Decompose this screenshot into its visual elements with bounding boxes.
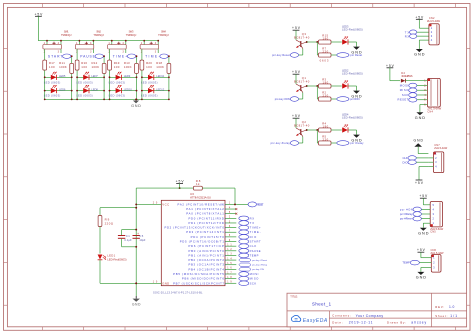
svg-text:SW3: SW3 [129,29,134,33]
node TIME+ (net label) [113,54,138,58]
ground (switch bank) [131,98,141,108]
svg-text:RX: RX [405,34,410,38]
svg-text:prc-key #relay: prc-key #relay [271,141,291,145]
resistor R11 100K [59,61,74,73]
wire [331,41,342,43]
svg-text:+5V: +5V [34,12,43,16]
svg-text:0.1µF: 0.1µF [124,238,132,242]
svg-text:GND: GND [414,139,424,143]
svg-text:Date:: Date: [332,320,343,324]
node pcr #ON (net label) [337,97,360,102]
svg-text:0603: 0603 [320,58,329,62]
svg-text:LED9: LED9 [124,74,131,78]
svg-text:10µF: 10µF [139,238,145,242]
ground (CN5) [418,228,429,236]
resistor R13 100K [124,61,139,73]
svg-text:GND: GND [162,281,169,285]
svg-text:GND: GND [418,231,429,235]
resistor R5 220 [319,134,332,145]
LED LED11 LED-0603 [141,72,170,85]
svg-text:100: 100 [49,65,55,69]
title date / drawn by [332,320,426,324]
svg-text:+5V: +5V [292,26,301,30]
svg-text:TIME-: TIME- [250,230,261,234]
svg-text:PA1 (PCINT9/XTAL2): PA1 (PCINT9/XTAL2) [186,207,225,211]
ground (CN6) [416,272,427,280]
node PAUSE (net label) [239,249,261,254]
U6 pin 15 PB3 [188,263,236,267]
svg-text:BC817-40: BC817-40 [294,35,310,39]
node TEMP (net label) [239,253,259,258]
svg-text:2019-12-11: 2019-12-11 [349,321,373,325]
wire [306,129,319,131]
node RX (net label) [405,34,424,38]
svg-text:PA2 (PCINT10/RESET/dW): PA2 (PCINT10/RESET/dW) [178,202,226,206]
svg-text:14: 14 [227,258,232,260]
U6 pin 6 PD2 [164,226,236,230]
svg-text:220: 220 [323,138,329,142]
switch SW4 [140,29,169,53]
svg-text:TX: TX [250,221,255,225]
U6 pin 3 PD1 [188,221,236,225]
U6 pin 2 PD0 [188,216,236,220]
U6 pin 7 PD3 [186,230,236,234]
node DIO (net label) [403,160,429,164]
LED LED9 LED-0603 [109,72,138,85]
svg-text:prc-key #Relay: prc-key #Relay [252,265,267,267]
node prc-key #Reset (net port) [239,258,268,262]
wire [406,80,428,82]
svg-text:PD6 (PCINT17/ICP): PD6 (PCINT17/ICP) [188,244,225,248]
wire [331,98,337,100]
connector CN7 ZH1.5-4AW [428,143,447,172]
svg-text:TEMP: TEMP [402,261,410,265]
U6 pin 16 PB4 [188,267,236,271]
svg-text:SCK: SCK [250,281,257,285]
wire [99,227,101,254]
ground (CN2) [414,49,425,57]
svg-text:CN4: CN4 [427,109,433,113]
svg-text:TIME+: TIME+ [250,226,261,230]
connector CN5 ZH1.5-5AW [421,202,443,234]
title Sheet_1 [312,302,332,307]
svg-text:Sheet_1: Sheet_1 [312,302,332,307]
svg-text:1k: 1k [196,182,200,186]
no-connect [235,208,237,210]
svg-text:Company:: Company: [332,314,351,318]
svg-text:20: 20 [153,202,158,205]
resistor R9 220ohm [98,208,114,227]
node RESET (net label) [398,97,422,102]
svg-text:LED-Red(0805): LED-Red(0805) [342,71,363,75]
U6 pin 19 PB7 [173,281,236,285]
wire (bottom GND bus) [45,98,169,100]
svg-text:SOIC-20_L13.0-W7.6-P1.27-LS10.: SOIC-20_L13.0-W7.6-P1.27-LS10.6-BL [153,290,203,294]
svg-text:Drawn By:: Drawn By: [387,320,406,324]
LED LED2 LED-Red(0805) [342,68,363,88]
power flag +5V (Q1 driver) [292,70,301,84]
wire [420,105,422,113]
switch SW1 [43,29,72,53]
U6 pin 20 VCC [135,202,169,207]
svg-text:PD1 (PCINT12/TXD): PD1 (PCINT12/TXD) [188,221,225,225]
svg-text:SW2: SW2 [96,29,101,33]
svg-text:100: 100 [81,65,87,69]
svg-text:LED-Red(0805): LED-Red(0805) [342,115,363,119]
capacitor C5 10uF (electrolytic) [133,232,146,242]
svg-text:LED (0603): LED (0603) [141,80,158,84]
svg-text:TX: TX [405,30,410,34]
node prc-key #Relay (net port) [239,263,267,267]
svg-text:LED (0603): LED (0603) [141,94,158,98]
svg-text:+5V: +5V [176,180,185,184]
svg-text:LED-Red(0603): LED-Red(0603) [107,258,126,262]
svg-text:PAUSE: PAUSE [80,54,95,58]
svg-text:BC817-40: BC817-40 [294,79,310,83]
svg-text:18: 18 [227,277,232,279]
resistor R19 100 [108,60,120,70]
node MOSI (net label) [239,272,259,277]
power flag +5V (CN4) [386,64,400,81]
svg-text:RESET: RESET [257,203,264,207]
switch SW2 [75,29,104,53]
LED LED1 LED-Red(0603) [98,254,127,262]
power flag +5V (CN5) [419,194,430,205]
wire (top +5V bus) [38,40,158,42]
svg-text:RX: RX [250,216,255,220]
svg-text:220: 220 [323,50,329,54]
svg-text:LED (0603): LED (0603) [109,94,126,98]
LED LED5 LED-0603 [44,72,73,85]
wire [141,49,143,100]
svg-text:PB5 (MOSI/DI/SDA/PCINT5): PB5 (MOSI/DI/SDA/PCINT5) [173,272,225,276]
svg-text:PD3 (PCINT14/INT1): PD3 (PCINT14/INT1) [186,230,225,234]
title REV [435,305,454,309]
title block [287,293,467,327]
transistor Q1 BC817-40 [294,76,310,93]
svg-text:TITLE:: TITLE: [290,295,298,299]
svg-text:Sheet:: Sheet: [435,314,447,318]
svg-text:15: 15 [227,263,232,265]
node pcr #Reset (net label) [400,216,422,221]
svg-text:100K: 100K [92,65,100,69]
svg-text:BC817-40: BC817-40 [294,123,310,127]
svg-text:100K: 100K [59,65,67,69]
svg-text:LED-Red(0805): LED-Red(0805) [342,27,363,31]
resistor R4 180 [319,121,332,132]
svg-text:17: 17 [227,272,232,274]
svg-text:VCC: VCC [162,203,169,207]
node pcr Reset (net label) [337,53,363,58]
wire [331,129,342,131]
node TX (net label) [405,30,424,34]
U6 pin 5 PA0 [186,212,236,216]
node TIME+ (net label) [239,225,261,230]
wire [348,130,356,135]
svg-text:LED (0603): LED (0603) [76,80,93,84]
wire [109,49,111,100]
power flag +5V (CN2) [415,15,424,28]
svg-text:TS66NQJ: TS66NQJ [61,33,72,37]
svg-text:13: 13 [227,254,232,256]
LED LED7 LED-0603 [76,72,105,85]
title company [332,314,383,318]
svg-text:START: START [250,240,261,244]
wire [418,153,428,155]
svg-text:GND: GND [416,276,427,280]
svg-text:LED (0603): LED (0603) [109,80,126,84]
wire [331,54,337,56]
svg-text:MOSI: MOSI [250,272,259,276]
svg-text:C1: C1 [126,234,130,238]
LED LED6 LED-0603 [44,85,73,98]
node prc-key #relay (net label) [271,137,303,146]
resistor R7 220 [319,46,332,62]
svg-text:PB1 (AIN1/PCINT1): PB1 (AIN1/PCINT1) [188,253,225,257]
node MISO (net label) [400,88,422,93]
node PAUSE (net label) [80,54,105,58]
resistor R15 180 [319,33,332,44]
wire [317,86,318,99]
switch SW3 [108,29,137,53]
node pcr #ON (net label) [400,207,422,212]
svg-text:prc-key Reset: prc-key Reset [272,53,290,57]
svg-text:LED12: LED12 [156,87,165,91]
U6 pin 17 PB5 [173,272,236,276]
U6 pin 8 PD4 [191,235,237,239]
node prc-key #ON (net label) [275,93,303,102]
U6 pin 1 PA2 [178,202,237,206]
wire [348,86,356,91]
node TIME- (net label) [239,230,261,235]
svg-text:1/1: 1/1 [450,314,457,318]
svg-text:LED (0603): LED (0603) [76,94,93,98]
svg-text:12: 12 [227,249,232,251]
power flag +5V (top rail) [34,12,43,16]
svg-text:prc-key #Reset: prc-key #Reset [252,259,267,262]
svg-text:LED (0603): LED (0603) [44,80,61,84]
svg-text:180: 180 [323,81,329,85]
svg-text:1N4148WS: 1N4148WS [401,74,413,78]
svg-text:PAUSE: PAUSE [250,249,261,253]
power flag +5V (MCU) [176,180,185,189]
svg-text:11: 11 [227,244,232,246]
svg-text:ZH1.5-4AW: ZH1.5-4AW [434,146,448,150]
LED LED12 LED-0603 [141,85,170,98]
svg-text:19: 19 [227,282,232,284]
resistor R2 220 [319,90,332,101]
wire [202,188,235,204]
wire [331,142,337,144]
power flag +5V (Q3 driver) [292,26,301,40]
node CLK (net label) [403,156,429,160]
U6 pin 9 PD5 [180,240,237,244]
ground (Q1 driver) [351,91,362,99]
svg-text:PB3 (OC1A/PCINT3): PB3 (OC1A/PCINT3) [188,263,225,267]
svg-text:Your Company: Your Company [356,314,384,318]
wire [76,49,78,100]
U6 pin 11 PD6 [188,244,236,248]
svg-text:PD0 (PCINT11/RXD): PD0 (PCINT11/RXD) [188,216,225,220]
svg-text:MISO: MISO [400,88,409,92]
svg-text:220Ω: 220Ω [105,221,114,225]
svg-text:pcr Reset: pcr Reset [350,53,362,57]
svg-text:100: 100 [146,65,152,69]
resistor R3 180 [319,77,332,88]
wire [126,49,138,100]
svg-text:MOSI: MOSI [400,83,409,87]
node RESET (net label) [234,202,264,207]
wire [317,130,318,143]
svg-text:SW1: SW1 [64,29,69,33]
LED LED3 LED-Red(0805) [342,24,363,44]
connector CN4 ZH1.5-6AW [422,78,442,113]
wire [93,49,105,100]
wire [317,42,318,55]
wire [158,49,170,100]
power flag +5V (CN6) [417,248,431,258]
svg-text:EasyEDA: EasyEDA [303,318,328,324]
U6 pin 10 GND [135,281,169,286]
svg-text:RESET: RESET [398,98,409,102]
U6 pin 14 PB2 [188,258,236,262]
svg-text:PD4 (PCINT15/T0): PD4 (PCINT15/T0) [191,235,226,239]
svg-text:220: 220 [323,94,329,98]
resistor R18 100K [156,61,171,73]
svg-text:GND: GND [131,104,141,108]
svg-text:GND: GND [415,116,426,120]
node pcr #relay (net label) [337,141,364,146]
svg-text:+5V: +5V [292,70,301,74]
resistor R16 100 [75,60,87,70]
svg-text:PB0 (AIN0/PCINT0): PB0 (AIN0/PCINT0) [188,249,225,253]
connector CN2 ZH1.5-4AW [424,16,441,45]
svg-text:TS66NQJ: TS66NQJ [93,33,104,37]
svg-text:+5V: +5V [415,181,424,185]
title Sheet no [435,314,457,318]
op-amp U6 ATTINY2313A-SU (MCU) [153,192,225,294]
svg-text:PD2 (PCINT13/CKOUT/XCK/INT0): PD2 (PCINT13/CKOUT/XCK/INT0) [164,226,225,230]
node START (net label) [48,54,73,58]
resistor R20 100 [140,60,152,70]
svg-text:LED6: LED6 [59,87,66,91]
wire [419,40,424,49]
capacitor C1 0.1uF [118,229,137,248]
LED LED10 LED-0603 [109,85,138,98]
resistor R12 100K [92,61,107,73]
svg-text:CLK: CLK [403,156,408,160]
svg-text:ATTINY2313A-SU: ATTINY2313A-SU [190,195,211,199]
svg-text:pcr #ON: pcr #ON [400,207,413,211]
wire [419,27,424,29]
node TX (net label) [239,221,254,226]
wire [348,42,356,47]
svg-text:SCK: SCK [402,93,409,97]
transistor Q2 BC817-40 [294,120,310,137]
ground (CN4) [415,112,426,120]
LED LED4 LED-Red(0805) [342,112,363,132]
diode D2 1N4148WS [401,71,413,83]
svg-text:GND: GND [132,302,141,306]
svg-text:LED11: LED11 [156,74,165,78]
svg-text:TEMP: TEMP [250,253,259,257]
wire [136,187,193,189]
svg-text:pcr #ON: pcr #ON [350,97,359,101]
svg-text:DIO: DIO [250,235,257,239]
node prc-key #ON (net port) [239,268,265,272]
node CLK (net label) [239,244,257,249]
svg-text:100K: 100K [156,65,164,69]
wire [331,85,342,87]
U6 pin 4 PA1 [186,207,236,211]
resistor R17 100 [43,60,55,70]
svg-text:CLK: CLK [250,244,257,248]
svg-text:10: 10 [153,281,158,284]
ground (Q3 driver) [351,47,362,55]
svg-text:MISO: MISO [250,277,259,281]
svg-text:LED5: LED5 [59,74,66,78]
svg-text:pcr #relay: pcr #relay [350,141,364,145]
wire [306,41,319,43]
svg-text:16: 16 [227,268,232,270]
svg-text:START: START [48,54,63,58]
ground (main) [132,296,141,306]
wire [61,49,73,100]
node pcr #Relay (net label) [400,212,422,217]
node prc-key Reset (net label) [272,49,303,58]
node START (net label) [239,239,261,244]
U6 pin 13 PB1 [188,253,236,257]
svg-text:PB7 (USCK/SCL/SCKPCINT7): PB7 (USCK/SCL/SCKPCINT7) [173,281,225,285]
svg-text:+5V: +5V [419,194,428,198]
node RX (net label) [239,216,254,221]
svg-text:pcr #Reset: pcr #Reset [400,217,413,221]
svg-text:180: 180 [323,37,329,41]
svg-text:REV:: REV: [435,305,444,309]
svg-text:+5V: +5V [386,64,395,68]
svg-text:pcr #Relay: pcr #Relay [400,212,413,216]
wire [100,207,137,209]
svg-text:LED10: LED10 [124,87,133,91]
svg-text:PA0 (PCINT8/XTAL1): PA0 (PCINT8/XTAL1) [186,212,225,216]
svg-text:TS66NQJ: TS66NQJ [158,33,169,37]
wire [100,260,137,284]
svg-text:LED (0603): LED (0603) [44,94,61,98]
U6 pin 12 PB0 [188,249,236,253]
U6 pin 18 PB6 [182,277,236,281]
resistor R8 1k [194,179,203,190]
svg-text:180: 180 [323,125,329,129]
svg-text:prc-key #ON: prc-key #ON [252,269,264,271]
svg-text:prc-key #ON: prc-key #ON [275,97,290,101]
connector CN6 ZH1.5-3AW [431,248,445,272]
svg-text:GND: GND [414,53,425,57]
svg-text:LED7: LED7 [91,74,98,78]
node MOSI (net label) [400,83,422,88]
svg-text:100K: 100K [124,65,132,69]
svg-text:100: 100 [114,65,120,69]
svg-text:DIO: DIO [403,160,408,164]
node MISO (net label) [239,276,259,281]
wire [306,85,319,87]
svg-text:TS66NQJ: TS66NQJ [126,33,137,37]
transistor Q3 BC817-40 [294,32,310,49]
node TIME- (net label) [145,54,170,58]
power flag +5V (CN7, down) [415,167,428,186]
node DIO (net label) [239,235,256,240]
svg-text:alicsey: alicsey [411,321,426,325]
svg-text:1.0: 1.0 [449,305,454,309]
